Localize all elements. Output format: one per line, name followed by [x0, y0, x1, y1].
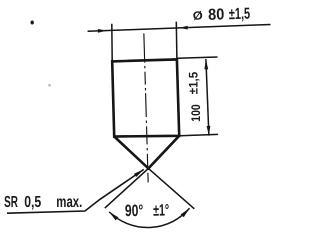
svg-text:90°: 90°	[125, 202, 144, 220]
svg-text:SR: SR	[4, 194, 18, 211]
svg-text:±1,5: ±1,5	[187, 72, 201, 94]
svg-text:80: 80	[208, 6, 225, 23]
svg-text:0,5: 0,5	[24, 194, 41, 211]
svg-text:±1,5: ±1,5	[229, 6, 251, 24]
svg-text:Ø: Ø	[193, 9, 203, 23]
svg-text:max.: max.	[56, 194, 82, 211]
svg-text:100: 100	[189, 104, 203, 121]
svg-text:±1°: ±1°	[153, 201, 169, 219]
